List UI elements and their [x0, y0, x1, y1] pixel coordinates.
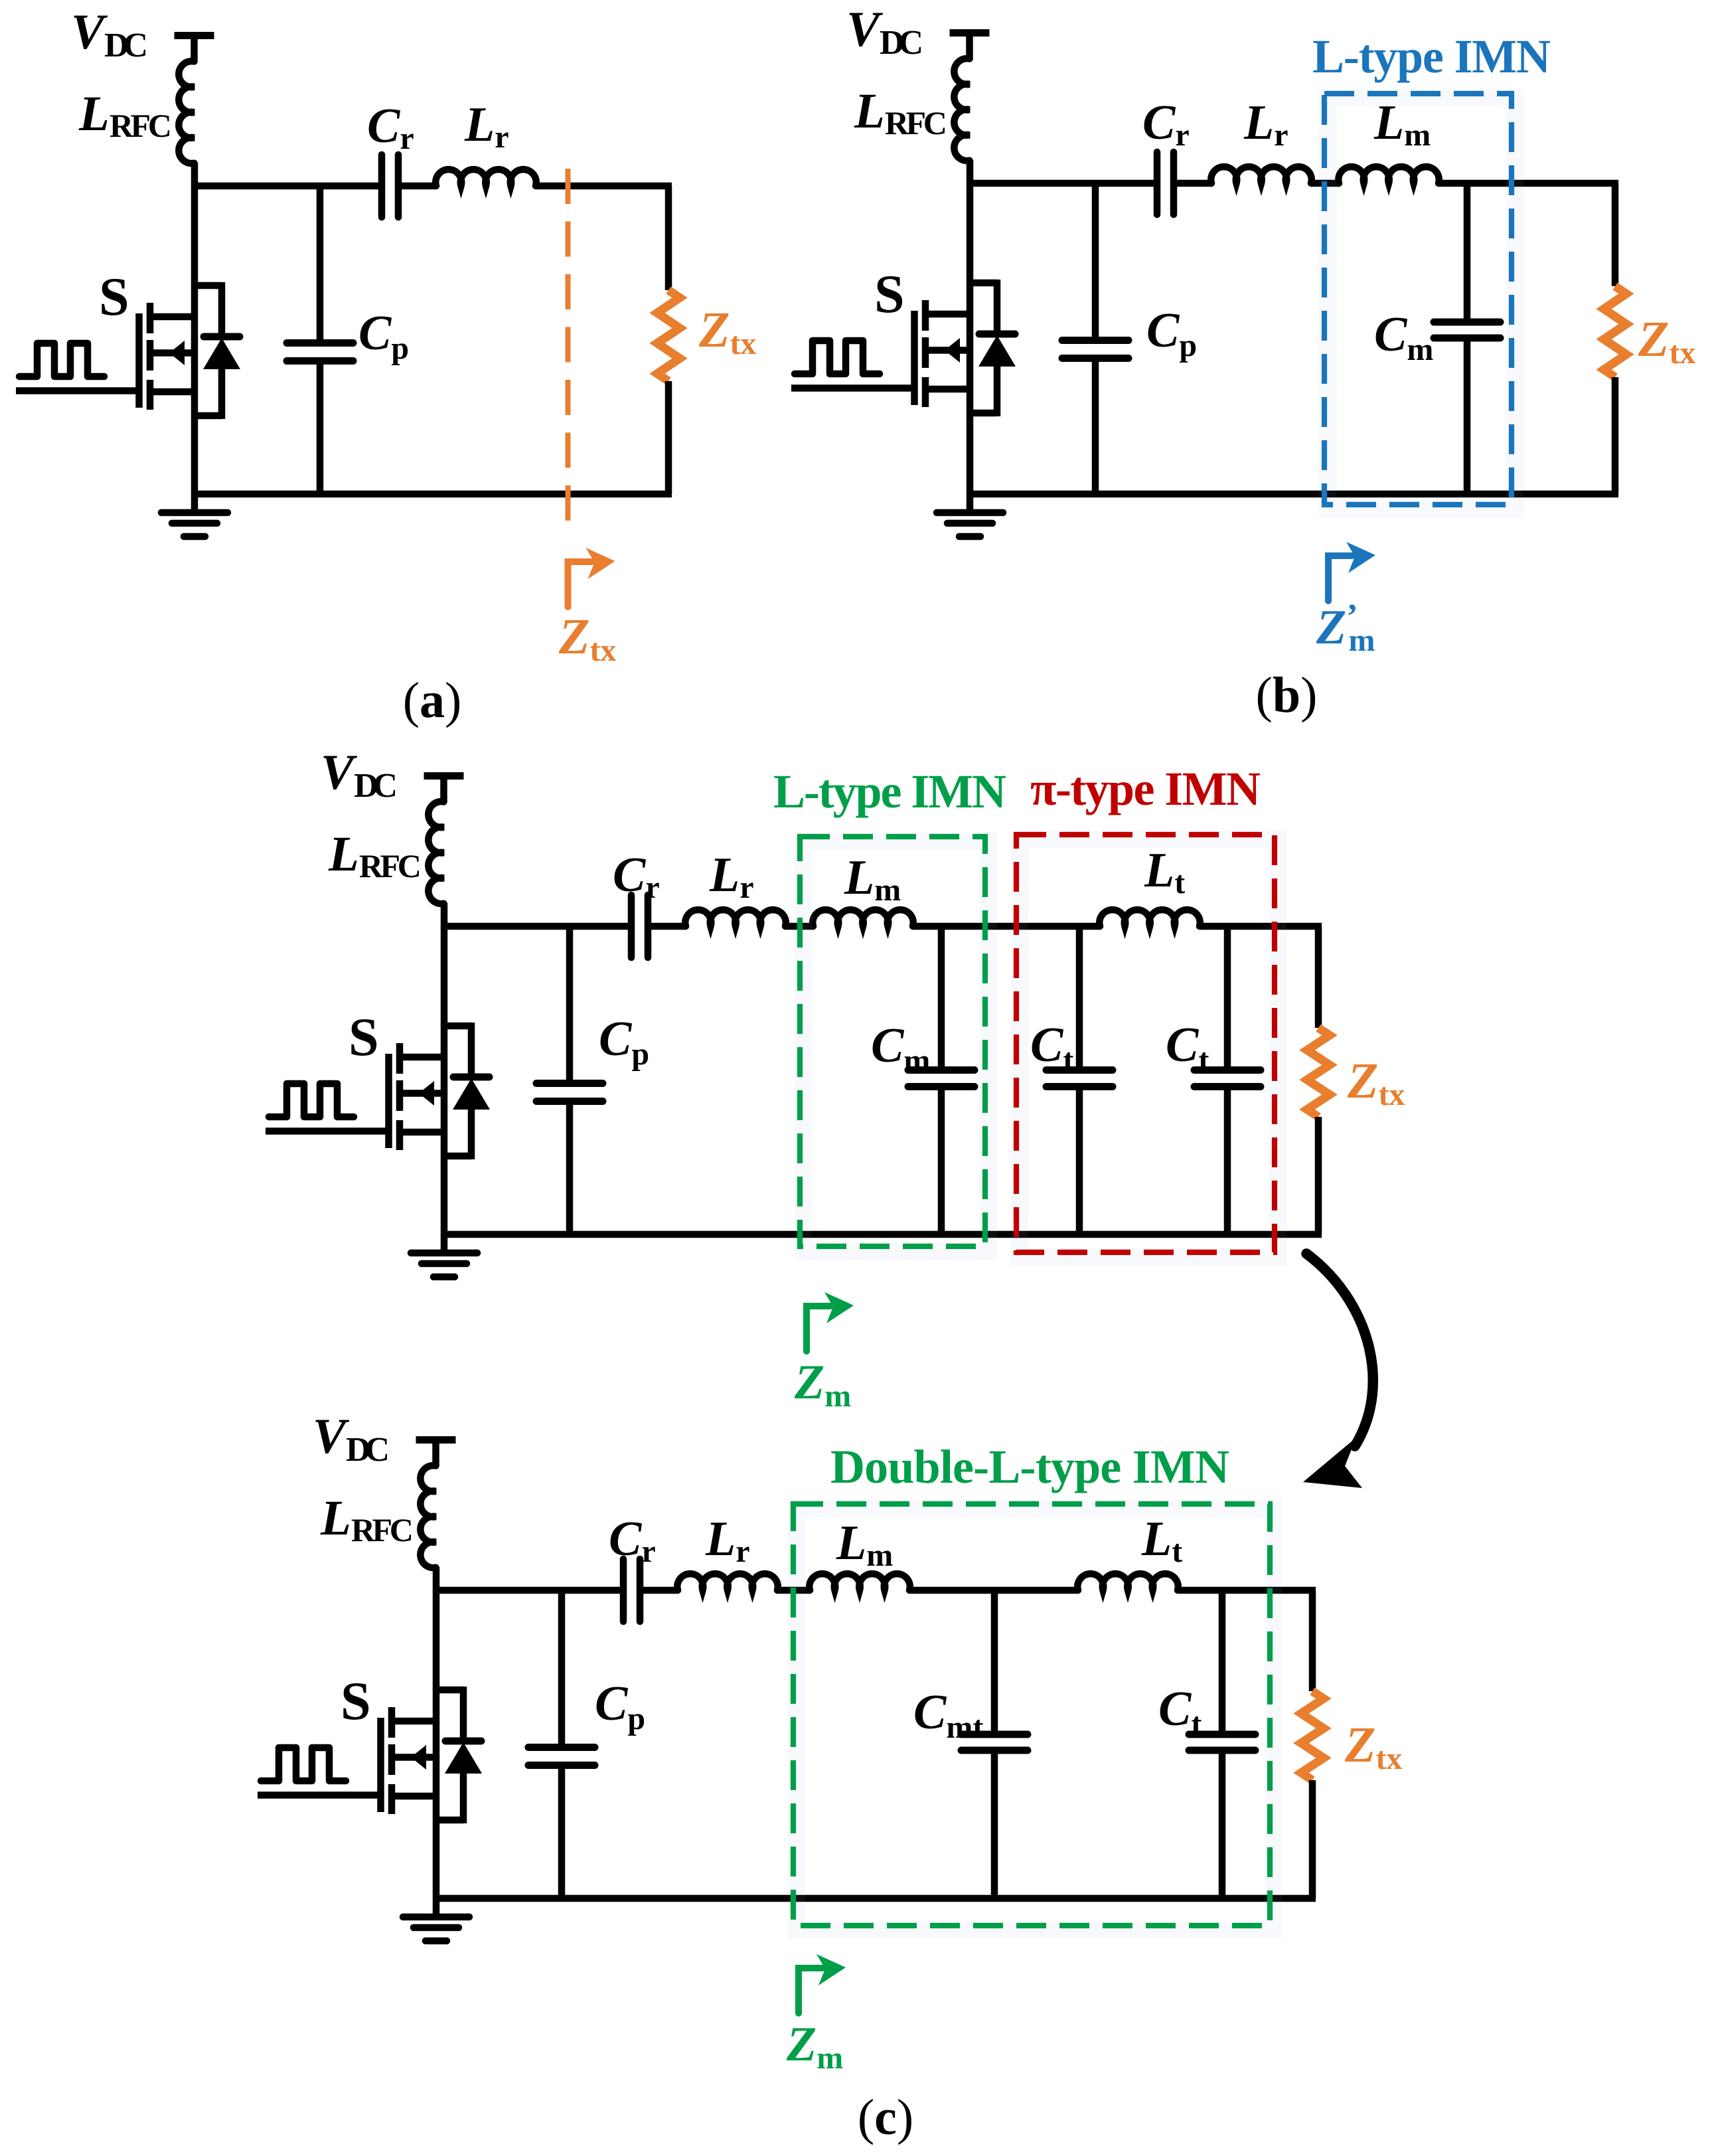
wire right branch upper (a)	[665, 186, 672, 290]
MOSFET channel segments (c-bot)	[388, 1707, 396, 1738]
impedance arrow Z_tx (a)	[568, 562, 592, 607]
power terminal V_DC (b)	[950, 29, 990, 37]
wire drain column (c-top)	[441, 903, 448, 1234]
wire drain column (a)	[191, 163, 198, 494]
svg-text:Ct: Ct	[1158, 1682, 1202, 1742]
MOSFET drain lead (c-top)	[400, 1054, 444, 1061]
wire L_m to corner (b)	[1439, 180, 1618, 187]
curved transform arrow	[1306, 1254, 1373, 1446]
svg-text:VDC: VDC	[313, 1409, 390, 1469]
inductor L_t (c-bot)	[1077, 1574, 1178, 1590]
shadow of L-type IMN box (c-top)	[803, 841, 988, 1251]
wire right branch upper (c-bot)	[1309, 1590, 1316, 1691]
wire gate (c-bot)	[258, 1791, 378, 1799]
svg-text:Ztx: Ztx	[1344, 1717, 1402, 1776]
inductor L_r (a)	[435, 169, 536, 186]
gate drive square-wave signal (c-bot)	[261, 1748, 346, 1781]
svg-text:Ct: Ct	[1166, 1018, 1209, 1078]
capacitor C_p (a)	[317, 186, 324, 343]
svg-text:VDC: VDC	[846, 2, 923, 62]
resistor Z_tx (a)	[657, 290, 680, 381]
impedance arrow Z_m (c-top)	[807, 1306, 830, 1351]
wire C_r to L_r (c-top)	[651, 923, 686, 930]
wire top rail left (a)	[191, 183, 378, 190]
shadow of pi-type IMN box (c-top)	[1020, 839, 1278, 1257]
svg-text:S: S	[874, 264, 905, 324]
inductor L_r (b)	[1211, 167, 1312, 183]
pi-type IMN dashed box (c-top)	[1016, 835, 1275, 1252]
MOSFET channel segments (c-top)	[396, 1043, 404, 1074]
svg-text:Lm: Lm	[836, 1516, 893, 1573]
capacitor C_r (a)	[378, 155, 386, 217]
MOSFET drain lead (a)	[150, 313, 195, 321]
wire top rail left (b)	[967, 180, 1154, 187]
wire right branch lower (c-bot)	[1309, 1780, 1316, 1898]
capacitor C_p (c-top)	[566, 926, 574, 1084]
svg-text:L-type IMN: L-type IMN	[1312, 30, 1551, 83]
gate drive square-wave signal (b)	[795, 341, 880, 374]
resistor Z_tx (b)	[1604, 286, 1626, 377]
body diode (c-top)	[444, 1023, 471, 1030]
svg-text:Cr: Cr	[367, 99, 414, 156]
svg-text:Zm: Zm	[786, 2017, 843, 2076]
MOSFET channel segments (b)	[922, 300, 929, 331]
wire right branch lower (a)	[665, 381, 672, 494]
L-type IMN dashed box (b)	[1324, 94, 1512, 505]
svg-text:π-type IMN: π-type IMN	[1030, 762, 1261, 815]
wire L_r to L_m (c-bot)	[777, 1587, 811, 1594]
wire L_r to L_m (c-top)	[785, 923, 814, 930]
svg-text:VDC: VDC	[71, 5, 148, 64]
gate drive square-wave signal (a)	[19, 343, 104, 376]
power terminal V_DC (a)	[175, 32, 214, 39]
wire gate (b)	[791, 384, 911, 392]
svg-text:Double-L-type IMN: Double-L-type IMN	[830, 1440, 1229, 1493]
svg-text:LRFC: LRFC	[78, 86, 172, 144]
svg-text:Cm: Cm	[871, 1019, 930, 1078]
svg-text:LRFC: LRFC	[854, 84, 947, 141]
wire drain column (b)	[967, 160, 974, 494]
MOSFET channel segments (a)	[147, 303, 154, 333]
inductor L_RFC (b)	[954, 58, 969, 161]
wire L_t to corner (c-top)	[1200, 923, 1322, 930]
inductor L_RFC (c-top)	[428, 801, 443, 904]
impedance arrow Z_m (c-bot)	[799, 1968, 822, 2013]
MOSFET gate electrode (b)	[911, 311, 918, 405]
wire L_r to right corner (a)	[536, 183, 672, 190]
wire L_r to L_m (b)	[1311, 180, 1340, 187]
svg-text:Cp: Cp	[358, 306, 409, 366]
body diode (c-bot)	[436, 1687, 463, 1694]
wire top rail left (c-top)	[441, 923, 628, 930]
wire drain column (c-bot)	[433, 1567, 440, 1898]
svg-text:(c): (c)	[858, 2090, 913, 2145]
shadow of Double-L-type IMN box (c-bot)	[797, 1509, 1273, 1930]
svg-text:S: S	[349, 1007, 379, 1067]
body diode (a)	[195, 282, 222, 290]
capacitor C_r (c-top)	[628, 895, 635, 957]
body diode (b)	[970, 280, 997, 287]
gate drive square-wave signal (c-top)	[269, 1084, 354, 1117]
MOSFET body lead arrow (b)	[925, 347, 970, 354]
svg-text:Ct: Ct	[1030, 1018, 1073, 1078]
wire gate (c-top)	[266, 1127, 386, 1135]
wire bottom rail (c-bot)	[436, 1895, 1316, 1902]
wire L_t to corner (c-bot)	[1178, 1587, 1316, 1594]
svg-text:Lr: Lr	[709, 848, 754, 905]
capacitor C_m (c-top)	[938, 926, 945, 1070]
inductor L_t (c-top)	[1099, 910, 1200, 926]
wire bottom rail (a)	[195, 491, 672, 498]
wire C_r to L_r (a)	[402, 183, 437, 190]
cut line Z_tx (orange dashed) (a)	[566, 169, 571, 521]
MOSFET drain lead (c-bot)	[392, 1718, 436, 1725]
svg-text:Z’m: Z’m	[1316, 598, 1375, 658]
wire right branch upper (c-top)	[1315, 926, 1322, 1028]
inductor L_m (b)	[1338, 167, 1439, 183]
impedance arrow Z_m' (b)	[1328, 556, 1352, 601]
wire right branch upper (b)	[1612, 183, 1619, 286]
capacitor C_r (c-bot)	[620, 1559, 627, 1621]
svg-text:Ztx: Ztx	[558, 609, 616, 668]
MOSFET gate electrode (c-bot)	[377, 1718, 384, 1812]
L-type IMN dashed box (c-top)	[800, 837, 985, 1246]
capacitor C_t (c-bot)	[1219, 1590, 1226, 1734]
capacitor C_p (b)	[1092, 183, 1099, 341]
svg-text:S: S	[99, 266, 129, 327]
svg-text:(a): (a)	[403, 673, 462, 728]
power terminal V_DC (c-top)	[424, 772, 464, 780]
ground (a)	[191, 494, 198, 510]
resistor Z_tx (c-bot)	[1301, 1691, 1324, 1780]
capacitor C_r (b)	[1154, 152, 1161, 214]
svg-text:LRFC: LRFC	[320, 1491, 414, 1548]
svg-text:Ztx: Ztx	[1347, 1053, 1405, 1112]
inductor L_r (c-top)	[685, 910, 786, 926]
wire gate (a)	[16, 387, 136, 394]
MOSFET drain lead (b)	[925, 311, 970, 318]
MOSFET source lead (a)	[150, 388, 195, 396]
svg-text:Cr: Cr	[613, 848, 660, 905]
MOSFET body lead arrow (c-bot)	[392, 1754, 436, 1761]
svg-text:S: S	[341, 1671, 371, 1731]
capacitor C_p (c-bot)	[558, 1590, 566, 1748]
svg-text:Lt: Lt	[1141, 1512, 1182, 1569]
capacitor C_mt (c-bot)	[991, 1590, 998, 1734]
inductor L_m (c-bot)	[809, 1574, 910, 1590]
svg-text:Cr: Cr	[1142, 96, 1190, 153]
svg-text:Lr: Lr	[1243, 96, 1288, 153]
svg-text:Cp: Cp	[1146, 303, 1197, 363]
capacitor C_t second (c-top)	[1224, 926, 1231, 1070]
inductor L_RFC (c-bot)	[420, 1465, 435, 1568]
resistor Z_tx (c-top)	[1307, 1028, 1330, 1117]
MOSFET body lead arrow (a)	[150, 349, 195, 357]
svg-text:LRFC: LRFC	[328, 827, 422, 884]
svg-text:Cp: Cp	[599, 1012, 649, 1072]
inductor L_m (c-top)	[813, 910, 913, 926]
svg-text:Cm: Cm	[1374, 307, 1433, 367]
wire L_m to L_t (c-top)	[913, 923, 1101, 930]
ground (c-bot)	[433, 1898, 440, 1914]
wire bottom rail (c-top)	[444, 1231, 1322, 1238]
wire top rail left (c-bot)	[433, 1587, 620, 1594]
svg-text:Lm: Lm	[844, 851, 901, 908]
svg-text:Lt: Lt	[1144, 843, 1185, 900]
svg-text:(b): (b)	[1256, 667, 1318, 723]
MOSFET body lead arrow (c-top)	[400, 1090, 444, 1097]
svg-text:VDC: VDC	[321, 745, 398, 805]
svg-text:Cr: Cr	[609, 1512, 656, 1569]
svg-text:Lr: Lr	[705, 1512, 750, 1569]
svg-text:L-type IMN: L-type IMN	[773, 765, 1006, 818]
svg-text:Cmt: Cmt	[913, 1685, 983, 1745]
MOSFET source lead (b)	[925, 386, 970, 393]
wire C_r to L_r (b)	[1177, 180, 1212, 187]
wire L_m to L_t (c-bot)	[909, 1587, 1079, 1594]
ground (b)	[967, 494, 974, 510]
svg-text:Ztx: Ztx	[1638, 311, 1695, 371]
capacitor C_t first (c-top)	[1076, 926, 1083, 1070]
inductor L_r (c-bot)	[677, 1574, 778, 1590]
shadow of L-type IMN box (b)	[1328, 98, 1515, 509]
svg-text:Ztx: Ztx	[698, 302, 756, 361]
MOSFET gate electrode (a)	[135, 313, 143, 408]
wire bottom rail (b)	[970, 491, 1618, 498]
svg-text:Lr: Lr	[464, 98, 509, 155]
wire C_r to L_r (c-bot)	[643, 1587, 678, 1594]
MOSFET gate electrode (c-top)	[385, 1054, 392, 1148]
svg-text:Cp: Cp	[595, 1677, 645, 1736]
capacitor C_m (b)	[1464, 183, 1471, 322]
wire right branch lower (b)	[1612, 377, 1619, 494]
power terminal V_DC (c-bot)	[416, 1436, 456, 1444]
MOSFET source lead (c-top)	[400, 1129, 444, 1136]
Double-L-type IMN dashed box (c-bot)	[793, 1504, 1270, 1926]
wire right branch lower (c-top)	[1315, 1117, 1322, 1234]
inductor L_RFC (a)	[179, 61, 194, 163]
svg-text:Zm: Zm	[794, 1355, 851, 1414]
MOSFET source lead (c-bot)	[392, 1793, 436, 1800]
ground (c-top)	[441, 1234, 448, 1250]
